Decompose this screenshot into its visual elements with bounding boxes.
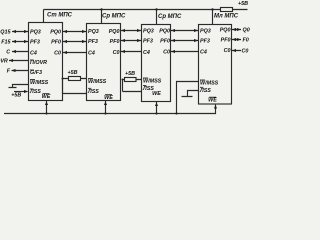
svg-text:W/MSS: W/MSS [143,79,162,85]
svg-text:PQ0: PQ0 [109,29,120,35]
svg-text:PF0: PF0 [160,39,170,45]
svg-text:PF3: PF3 [88,39,98,45]
svg-text:+5В: +5В [67,70,77,76]
svg-text:PF3: PF3 [143,39,153,45]
svg-text:П/OVR: П/OVR [30,60,47,66]
svg-text:C0: C0 [113,50,120,56]
svg-text:F0: F0 [243,38,249,44]
svg-text:Ст МПС: Ст МПС [47,13,73,19]
svg-text:C: C [6,50,10,56]
svg-text:C0: C0 [242,48,249,54]
svg-text:ЛSS: ЛSS [199,88,211,94]
svg-text:Q0: Q0 [243,28,250,34]
svg-text:ЛSS: ЛSS [29,89,41,95]
svg-text:PF0: PF0 [221,38,231,44]
svg-text:C0: C0 [54,51,61,57]
svg-text:PF0: PF0 [51,40,61,46]
svg-text:C4: C4 [88,51,95,57]
svg-text:W/MSS: W/MSS [30,80,49,86]
svg-text:PQ3: PQ3 [88,29,99,35]
svg-text:W/MSS: W/MSS [200,81,219,87]
svg-text:C0: C0 [224,48,231,54]
svg-text:Q15: Q15 [0,30,11,36]
svg-text:C0: C0 [163,50,170,56]
svg-text:PF0: PF0 [110,39,120,45]
svg-text:G/F3: G/F3 [30,70,42,76]
svg-text:PQ0: PQ0 [159,29,170,35]
svg-text:WE: WE [42,94,51,100]
svg-text:+5В: +5В [238,1,248,7]
svg-text:ЛSS: ЛSS [87,89,99,95]
svg-text:PF3: PF3 [200,39,210,45]
svg-text:PF3: PF3 [30,40,40,46]
svg-text:Ср МПС: Ср МПС [102,14,126,20]
svg-text:Ср МПС: Ср МПС [158,14,182,20]
svg-text:C4: C4 [143,50,150,56]
svg-text:PQ3: PQ3 [200,29,211,35]
svg-text:C4: C4 [30,51,37,57]
svg-text:+5В: +5В [11,93,21,99]
svg-text:W/MSS: W/MSS [88,79,107,85]
svg-text:OVR: OVR [0,59,8,65]
svg-text:PQ0: PQ0 [50,30,61,36]
svg-text:+5В: +5В [125,71,135,77]
svg-text:PQ3: PQ3 [30,30,41,36]
svg-text:F15: F15 [1,40,11,46]
svg-text:Мл МПС: Мл МПС [214,14,239,20]
svg-text:C4: C4 [200,50,207,56]
svg-text:WE: WE [104,95,113,101]
svg-text:PQ0: PQ0 [220,28,231,34]
svg-text:WE: WE [152,91,161,97]
svg-text:WE: WE [208,98,217,104]
svg-text:PQ3: PQ3 [143,29,154,35]
